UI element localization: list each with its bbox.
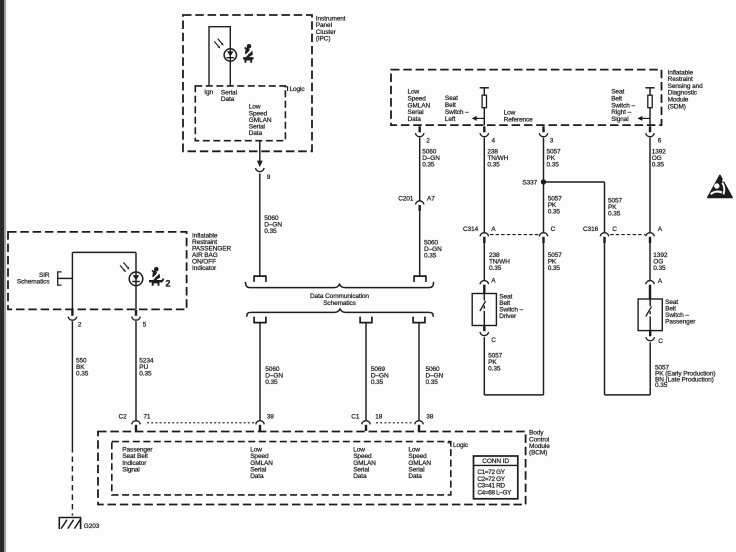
svg-text:0.35: 0.35 <box>139 370 152 377</box>
svg-text:0.35: 0.35 <box>655 382 668 389</box>
svg-text:0.35: 0.35 <box>548 265 561 272</box>
svg-text:0.35: 0.35 <box>424 253 437 260</box>
svg-text:Data: Data <box>353 473 367 480</box>
svg-text:Logic: Logic <box>453 442 469 449</box>
svg-text:C316: C316 <box>583 226 599 233</box>
svg-text:C: C <box>551 226 556 233</box>
svg-text:Indicator: Indicator <box>192 265 217 272</box>
svg-text:Schematics: Schematics <box>17 279 50 286</box>
svg-text:3: 3 <box>550 137 554 144</box>
svg-text:0.35: 0.35 <box>264 228 277 235</box>
svg-text:0.35: 0.35 <box>489 265 502 272</box>
svg-text:A: A <box>658 278 663 285</box>
svg-text:0.35: 0.35 <box>371 379 384 386</box>
svg-text:38: 38 <box>426 413 434 420</box>
svg-text:0.35: 0.35 <box>488 365 501 372</box>
svg-text:0.35: 0.35 <box>653 265 666 272</box>
svg-text:0.35: 0.35 <box>76 370 89 377</box>
svg-text:5: 5 <box>143 322 147 329</box>
svg-text:(BCM): (BCM) <box>529 450 547 457</box>
svg-text:C2: C2 <box>119 413 128 420</box>
svg-text:9: 9 <box>267 174 271 181</box>
svg-text:Data: Data <box>408 473 422 480</box>
svg-text:38: 38 <box>267 413 275 420</box>
svg-text:A7: A7 <box>427 195 435 202</box>
svg-text:0.35: 0.35 <box>548 209 561 216</box>
svg-text:C314: C314 <box>463 226 479 233</box>
svg-text:Data: Data <box>221 96 235 103</box>
svg-text:2: 2 <box>165 279 170 289</box>
svg-text:71: 71 <box>143 413 151 420</box>
svg-text:(IPC): (IPC) <box>316 35 331 42</box>
svg-text:2: 2 <box>78 322 82 329</box>
svg-text:Passenger: Passenger <box>665 318 696 325</box>
svg-text:Signal: Signal <box>611 116 629 123</box>
svg-text:0.35: 0.35 <box>652 162 665 169</box>
svg-text:G203: G203 <box>84 523 100 530</box>
svg-text:Reference: Reference <box>504 117 534 124</box>
svg-text:0.35: 0.35 <box>487 162 500 169</box>
svg-text:0.35: 0.35 <box>608 211 621 218</box>
svg-text:Driver: Driver <box>499 313 517 320</box>
svg-text:C1: C1 <box>351 413 360 420</box>
svg-text:C4=68 L–GY: C4=68 L–GY <box>477 489 512 496</box>
svg-text:S337: S337 <box>522 180 537 187</box>
svg-text:Ign: Ign <box>204 89 213 96</box>
svg-text:A: A <box>491 277 496 284</box>
svg-text:2: 2 <box>426 137 430 144</box>
svg-text:Data: Data <box>408 116 422 123</box>
svg-text:0.35: 0.35 <box>422 162 435 169</box>
svg-text:4: 4 <box>492 137 496 144</box>
svg-text:A: A <box>658 226 663 233</box>
svg-text:Data: Data <box>249 130 263 137</box>
svg-text:Logic: Logic <box>290 86 306 93</box>
svg-text:18: 18 <box>375 413 383 420</box>
svg-text:0.35: 0.35 <box>547 162 560 169</box>
svg-text:(SDM): (SDM) <box>668 103 686 110</box>
svg-text:CONN ID: CONN ID <box>482 458 509 465</box>
svg-text:C: C <box>612 226 617 233</box>
svg-text:Schematics: Schematics <box>323 300 356 307</box>
svg-text:C201: C201 <box>398 195 414 202</box>
svg-text:Left: Left <box>445 116 456 123</box>
svg-text:0.35: 0.35 <box>426 379 439 386</box>
svg-text:C: C <box>491 337 496 344</box>
svg-text:6: 6 <box>658 137 662 144</box>
svg-text:A: A <box>491 226 496 233</box>
svg-text:Signal: Signal <box>122 466 140 473</box>
svg-text:Data: Data <box>250 473 264 480</box>
svg-text:C: C <box>658 338 663 345</box>
svg-text:0.35: 0.35 <box>265 379 278 386</box>
svg-text:Data Communication: Data Communication <box>310 293 369 300</box>
